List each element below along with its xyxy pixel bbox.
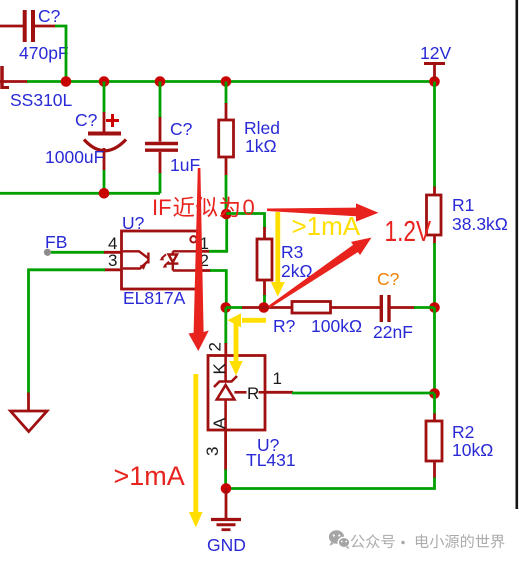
svg-text:C?: C?: [170, 119, 193, 139]
annotation red arrow to 1.2V (horizontal): [267, 203, 379, 221]
wire: [35, 26, 66, 82]
svg-text:2: 2: [206, 342, 225, 351]
svg-text:IF: IF: [152, 195, 172, 220]
wire lower rail: [0, 192, 160, 195]
resistor Rled 1kΩ: [219, 82, 280, 215]
shunt regulator U? TL431: [203, 342, 296, 470]
svg-text:EL817A: EL817A: [123, 288, 186, 308]
wire right rail upper: [433, 82, 436, 196]
svg-text:1: 1: [273, 369, 282, 388]
annotation yellow arrow long down: [189, 374, 203, 528]
annotation red arrow IF (big, tapered, down): [189, 168, 209, 351]
wire node to R3: [226, 214, 264, 229]
watermark wechat logo: [329, 530, 350, 549]
node: [429, 302, 440, 313]
wire opto pin 3 to ground: [29, 270, 122, 411]
svg-text:1000uF: 1000uF: [45, 147, 104, 167]
wire opto pin 4: [51, 251, 122, 254]
svg-text:1uF: 1uF: [170, 155, 200, 175]
annotation text IF近似为0: [152, 195, 255, 220]
node: [99, 76, 110, 87]
svg-text:22nF: 22nF: [373, 322, 413, 342]
diode SS310L (cut off at sheet edge): [0, 66, 73, 110]
sheet border (right edge): [515, 0, 518, 509]
LED inside opto: [167, 251, 196, 270]
svg-text:3: 3: [108, 251, 117, 270]
node: [221, 209, 232, 220]
capacitor C? 1uF: [145, 82, 200, 194]
svg-text:1.2V: 1.2V: [385, 214, 432, 247]
optocoupler U? EL817A: [108, 213, 209, 308]
node FB pin: [44, 249, 51, 256]
capacitor C? 1000uF (electrolytic): [45, 82, 126, 194]
svg-text:3: 3: [203, 447, 222, 456]
optocoupler pin 1 indicator: [190, 236, 196, 242]
svg-text:SS310L: SS310L: [10, 90, 73, 110]
node: [429, 388, 440, 399]
resistor R? 100kΩ: [273, 302, 362, 337]
svg-text:U?: U?: [122, 213, 145, 233]
svg-text:10kΩ: 10kΩ: [452, 440, 493, 460]
svg-text:FB: FB: [45, 232, 67, 252]
svg-text:R1: R1: [452, 195, 474, 215]
node: [259, 302, 270, 313]
annotation yellow arrow into TL431: [229, 321, 243, 376]
wire TL431 anode to ground: [224, 430, 227, 489]
svg-text:38.3kΩ: 38.3kΩ: [452, 214, 508, 234]
annotation yellow arrow left into K node: [228, 313, 267, 327]
wire TL431 ref to divider: [265, 391, 435, 395]
svg-text:0: 0: [243, 195, 255, 220]
svg-text:TL431: TL431: [246, 450, 296, 470]
ground (earth triangle): [11, 411, 48, 432]
resistor R3 2kΩ: [257, 227, 313, 308]
wire middle net: [226, 306, 292, 309]
wire top rail: [27, 80, 435, 83]
svg-text:R3: R3: [281, 242, 303, 262]
watermark text 公众号·电小源的世界: [351, 534, 505, 548]
svg-text:>1mA: >1mA: [114, 461, 185, 491]
wire opto pin 1 up to Rled node: [198, 213, 227, 251]
svg-text:1kΩ: 1kΩ: [245, 136, 277, 156]
svg-text:C?: C?: [377, 269, 400, 289]
node: [221, 483, 232, 494]
wire: [390, 306, 435, 309]
node: [99, 188, 110, 199]
wire: [433, 308, 436, 394]
svg-text:GND: GND: [207, 535, 246, 555]
resistor R2 10kΩ: [426, 421, 493, 479]
resistor R1 38.3kΩ: [427, 195, 508, 244]
capacitor C? 22nF: [373, 269, 413, 342]
node: [61, 76, 72, 87]
node: [221, 76, 232, 87]
wire: [331, 306, 381, 309]
svg-text:K: K: [210, 363, 229, 375]
wire: [433, 243, 436, 308]
svg-text:Rled: Rled: [244, 118, 280, 138]
svg-text:R2: R2: [452, 422, 474, 442]
annotation red arrow diagonal: [268, 238, 371, 309]
node: [155, 76, 166, 87]
phototransistor inside opto: [123, 251, 148, 269]
node: [221, 302, 232, 313]
wire TL431 cathode: [224, 308, 227, 356]
svg-text:A: A: [210, 417, 229, 429]
svg-text:100kΩ: 100kΩ: [311, 316, 362, 336]
capacitor C? 470pF: [19, 6, 69, 63]
svg-text:C?: C?: [38, 6, 61, 26]
annotation yellow arrow through R3: [271, 212, 285, 297]
wire opto pin 2 down: [198, 271, 227, 308]
svg-text:R?: R?: [273, 316, 296, 336]
wire: [0, 25, 23, 28]
svg-text:C?: C?: [75, 110, 98, 130]
svg-text:>1mA: >1mA: [292, 211, 361, 241]
wire: [226, 478, 435, 489]
node: [429, 76, 440, 87]
light arrows inside opto: [160, 254, 170, 267]
power 12V: [420, 43, 451, 79]
wire: [433, 394, 436, 422]
svg-text:470pF: 470pF: [19, 43, 69, 63]
svg-text:R: R: [247, 384, 259, 403]
ground GND: [207, 489, 246, 556]
svg-text:12V: 12V: [420, 43, 451, 63]
